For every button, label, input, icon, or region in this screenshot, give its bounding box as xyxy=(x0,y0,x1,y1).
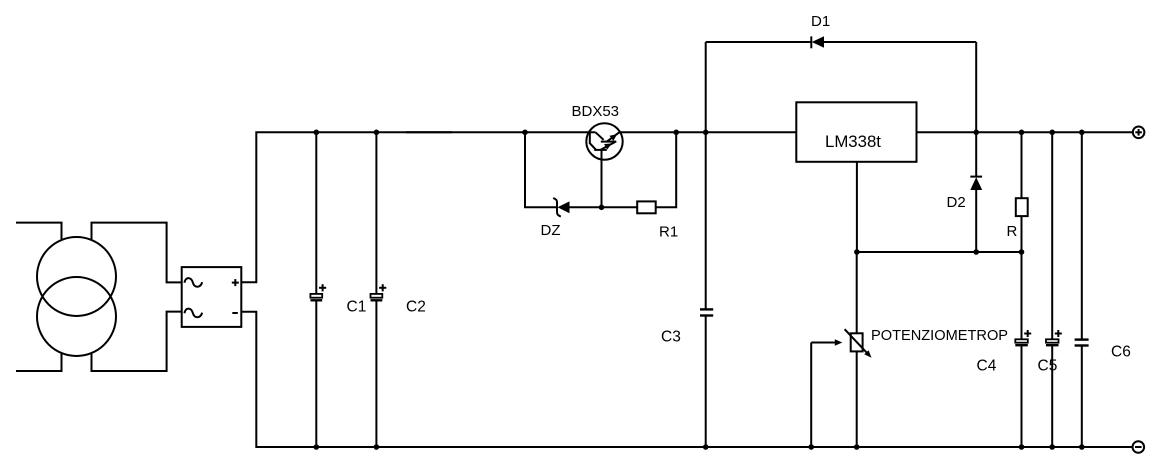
svg-text:DZ: DZ xyxy=(541,222,561,239)
svg-text:BDX53: BDX53 xyxy=(572,103,620,120)
svg-text:C1: C1 xyxy=(347,299,367,316)
svg-text:C2: C2 xyxy=(406,299,426,316)
svg-text:POTENZIOMETROP: POTENZIOMETROP xyxy=(871,328,1008,344)
svg-text:C3: C3 xyxy=(661,329,681,346)
svg-text:LM338t: LM338t xyxy=(825,132,881,151)
svg-text:C5: C5 xyxy=(1038,358,1058,375)
svg-text:D1: D1 xyxy=(811,13,830,30)
svg-text:C6: C6 xyxy=(1111,344,1131,361)
svg-text:R: R xyxy=(1007,223,1018,240)
svg-text:D2: D2 xyxy=(947,194,966,211)
svg-text:R1: R1 xyxy=(659,224,678,241)
svg-text:C4: C4 xyxy=(977,358,997,375)
